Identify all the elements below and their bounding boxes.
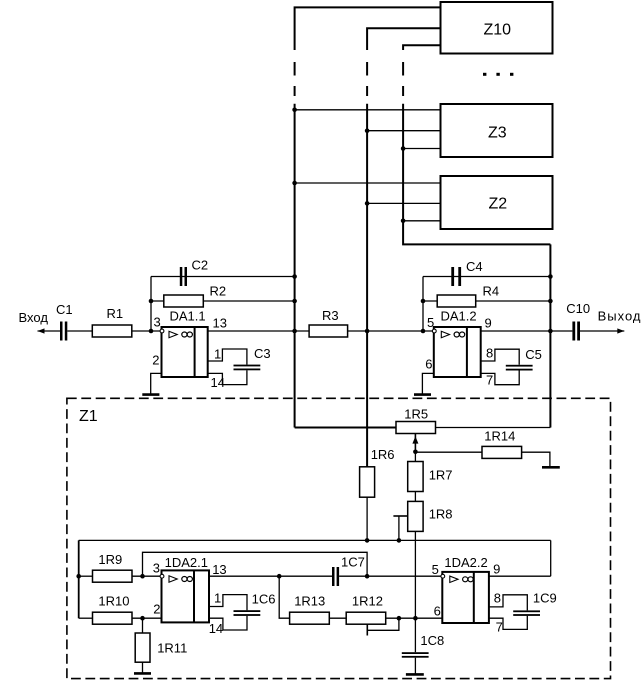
svg-text:1R5: 1R5	[404, 406, 428, 421]
block Z1 dashed box	[67, 398, 611, 678]
ground DA1.2	[414, 393, 431, 396]
svg-text:1R6: 1R6	[371, 447, 395, 462]
resistor 1R10	[93, 593, 133, 624]
svg-text:Z2: Z2	[489, 196, 508, 213]
bus line 1 (left vertical bus)	[295, 7, 441, 427]
svg-text:8: 8	[494, 591, 501, 606]
svg-text:7: 7	[486, 372, 493, 387]
wire pin 13 to 1C7	[209, 575, 332, 577]
op-amp DA1.1	[152, 309, 227, 390]
svg-text:7: 7	[496, 619, 503, 634]
svg-text:R3: R3	[322, 308, 339, 323]
svg-text:1DA2.1: 1DA2.1	[165, 555, 208, 570]
svg-text:R1: R1	[107, 306, 124, 321]
capacitor 1C6	[209, 591, 275, 630]
resistor R4	[437, 283, 499, 307]
wire R1 to pin 3	[132, 330, 162, 332]
svg-text:C2: C2	[192, 258, 209, 273]
svg-text:C10: C10	[566, 301, 590, 316]
svg-text:Выход: Выход	[598, 308, 642, 323]
wire pin 6 to ground	[422, 373, 433, 394]
svg-text:1R9: 1R9	[98, 552, 122, 567]
svg-text:DA1.2: DA1.2	[441, 309, 477, 324]
junction dots on bus lines	[292, 108, 405, 224]
capacitor 1C9	[489, 591, 557, 630]
svg-text:C5: C5	[525, 347, 542, 362]
svg-text:Z10: Z10	[484, 22, 512, 39]
ground 1C8	[406, 673, 424, 676]
potentiometer 1R5	[396, 406, 436, 451]
svg-text:1: 1	[214, 346, 221, 361]
block Z2	[441, 176, 553, 229]
wire branch down to 1R13	[279, 576, 289, 618]
ground DA1.1	[142, 393, 159, 396]
wire junction to 1R11	[142, 618, 144, 633]
wire Z2 stub 3	[403, 220, 440, 222]
left bus of Z1	[78, 540, 80, 618]
svg-text:C4: C4	[466, 259, 483, 274]
wire 1R10 to pin 2	[132, 617, 162, 619]
svg-text:C3: C3	[254, 346, 271, 361]
op-amp 1DA2.2	[432, 555, 503, 635]
wire feedback vertical DA1.2	[422, 277, 424, 332]
svg-text:14: 14	[209, 621, 223, 636]
svg-text:9: 9	[485, 315, 492, 330]
svg-text:3: 3	[153, 561, 160, 576]
svg-text:R2: R2	[210, 283, 227, 298]
wire R3 to DA1.2	[348, 330, 434, 332]
capacitor C3	[208, 346, 271, 385]
wire 1R9 row	[79, 575, 93, 577]
right bus vertical	[549, 244, 551, 427]
wire R2 feedback	[151, 300, 295, 302]
wire B (upper horizontal of bottom section)	[143, 552, 368, 576]
resistor 1R8 with tap	[393, 501, 452, 540]
wire Z3 stub 1	[295, 109, 441, 111]
op-amp 1DA2.1	[153, 555, 227, 636]
wire C2 feedback	[151, 276, 295, 278]
wire R4 feedback	[423, 300, 550, 302]
svg-text:1C6: 1C6	[252, 591, 276, 606]
capacitor C10	[566, 301, 590, 341]
svg-text:6: 6	[434, 603, 441, 618]
svg-text:Z3: Z3	[488, 125, 507, 142]
svg-text:2: 2	[152, 352, 159, 367]
wire feedback vertical DA1.1	[150, 277, 152, 332]
node wiper junction	[413, 450, 418, 455]
ground 1R14	[542, 466, 560, 469]
svg-text:5: 5	[427, 315, 434, 330]
block Z10	[441, 2, 553, 54]
svg-text:3: 3	[154, 315, 161, 330]
wire 1R14 to ground	[522, 452, 550, 467]
wire 1R12 to pin 6	[386, 617, 443, 619]
svg-text:6: 6	[425, 357, 432, 372]
op-amp DA1.2	[425, 309, 493, 388]
wire pin 2 to ground	[151, 373, 162, 394]
bus line 2 (middle vertical bus)	[367, 28, 440, 467]
input arrow	[38, 328, 61, 333]
svg-text:1DA2.2: 1DA2.2	[444, 555, 487, 570]
resistor 1R11	[135, 633, 187, 662]
wire C4 feedback	[423, 276, 550, 278]
resistor R3	[309, 308, 348, 337]
wire 1C7 to pin 5	[339, 575, 442, 577]
svg-text:9: 9	[493, 561, 500, 576]
wire wiper to 1R14	[415, 451, 482, 453]
svg-text:1R8: 1R8	[429, 506, 453, 521]
wire wiper to 1R7	[414, 452, 416, 462]
capacitor C2	[180, 258, 208, 287]
bus line 3 (right vertical bus)	[403, 45, 550, 244]
wire bus1 to 1R5	[295, 427, 396, 429]
resistor 1R13	[290, 593, 330, 624]
resistor R2	[164, 283, 226, 307]
svg-text:1R7: 1R7	[429, 467, 453, 482]
resistor 1R7	[408, 462, 453, 492]
svg-text:1R14: 1R14	[484, 429, 515, 444]
svg-text:Z1: Z1	[79, 408, 98, 425]
wire main line DA1.1 out to R3	[208, 330, 309, 332]
wire 1R6 bottom to wire A	[366, 497, 368, 540]
wire 1R7 to 1R8	[414, 492, 416, 502]
wire pin 9 output	[489, 575, 551, 577]
resistor 1R12 with tap	[346, 593, 399, 635]
resistor 1R6	[360, 447, 395, 497]
svg-text:5: 5	[432, 562, 439, 577]
wire 1C8 to ground	[414, 658, 416, 675]
svg-text:1C8: 1C8	[420, 633, 444, 648]
wire 1R10 row	[79, 617, 93, 619]
capacitor C4	[451, 259, 482, 286]
svg-text:1R13: 1R13	[294, 593, 325, 608]
svg-text:C1: C1	[56, 302, 73, 317]
wire A right vertical to pin 9 line	[550, 540, 552, 576]
svg-text:1: 1	[214, 591, 221, 606]
output arrow	[580, 328, 624, 333]
svg-text:13: 13	[212, 562, 226, 577]
resistor 1R14	[482, 429, 522, 459]
svg-text:2: 2	[153, 601, 160, 616]
block Z3	[441, 104, 553, 157]
ground 1R11	[134, 672, 151, 675]
wire Z2 stub 1	[295, 182, 441, 184]
wire 1R9 to pin 3	[132, 575, 162, 577]
svg-text:1C7: 1C7	[341, 555, 365, 570]
svg-text:Вход: Вход	[19, 310, 49, 325]
svg-text:R4: R4	[483, 283, 500, 298]
svg-text:8: 8	[486, 345, 493, 360]
wire Z2 stub 2	[367, 202, 440, 204]
wire C1 to R1	[67, 330, 92, 332]
wire 1R13 to 1R12	[329, 617, 346, 619]
svg-text:1R10: 1R10	[98, 593, 129, 608]
node DA1.1 input junction	[149, 329, 154, 334]
capacitor C1	[56, 302, 73, 341]
wire 1R5 right to right bus	[436, 427, 551, 429]
svg-text:13: 13	[213, 316, 227, 331]
svg-text:DA1.1: DA1.1	[170, 309, 206, 324]
svg-text:1R11: 1R11	[157, 641, 187, 656]
wire 1R8 bottom down to 1C8	[414, 531, 416, 652]
svg-text:1R12: 1R12	[352, 593, 383, 608]
capacitor 1C8	[402, 633, 444, 658]
wire Z3 stub 2	[367, 130, 440, 132]
ellipsis dots between Z10 and Z3	[483, 73, 513, 76]
capacitor 1C7	[332, 555, 365, 587]
resistor R1	[92, 306, 132, 337]
wire A feedback (long horizontal)	[79, 539, 551, 541]
capacitor C5	[481, 347, 542, 385]
wire DA1.2 out to C10	[481, 330, 573, 332]
resistor 1R9	[93, 552, 133, 582]
wire 1R11 to ground	[142, 662, 144, 673]
svg-text:1C9: 1C9	[533, 591, 557, 606]
wire Z3 stub 3	[403, 148, 440, 150]
